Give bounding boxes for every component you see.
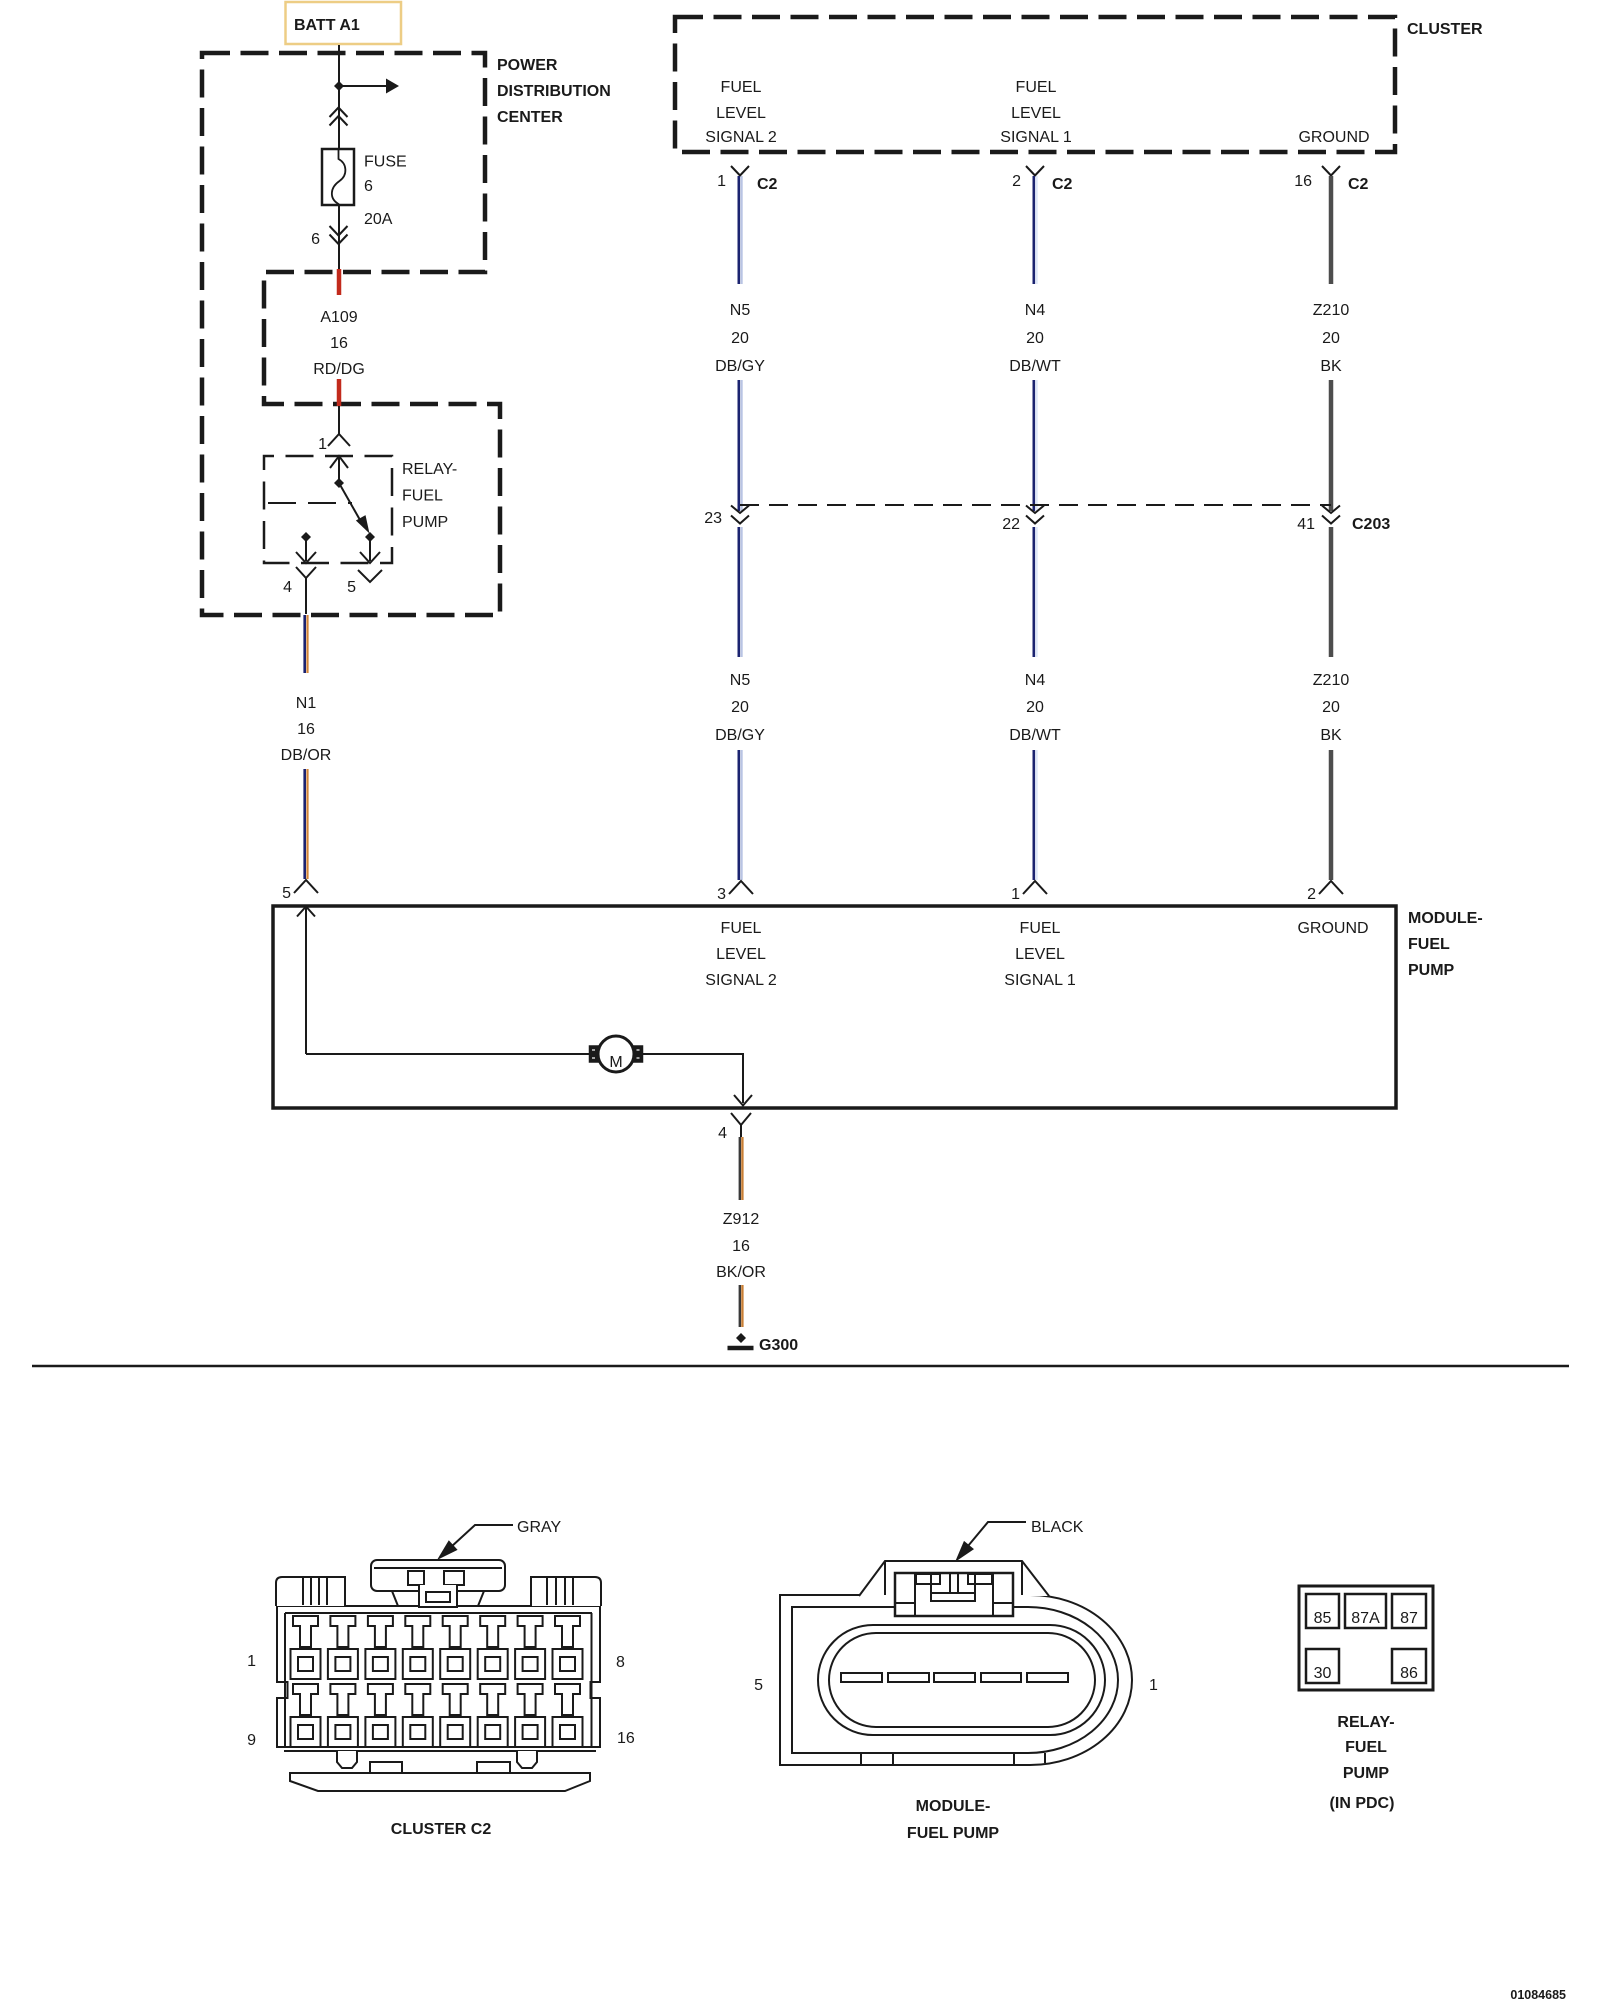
- svg-text:FUEL: FUEL: [1016, 79, 1057, 96]
- svg-text:85: 85: [1314, 1610, 1332, 1627]
- module pin 3 connector: [729, 881, 753, 894]
- pump slots: [841, 1673, 882, 1682]
- module internal wire from pin 5: [305, 907, 307, 1055]
- svg-text:BK: BK: [1320, 358, 1342, 375]
- svg-text:DISTRIBUTION: DISTRIBUTION: [497, 83, 611, 100]
- svg-text:Z210: Z210: [1313, 302, 1350, 319]
- battery feed BATT A1: [286, 2, 402, 44]
- label module fuel pump: [1408, 910, 1483, 979]
- fuse 6 20A: [322, 149, 407, 228]
- module pin 2 connector: [1319, 881, 1343, 894]
- separator line: [32, 1365, 1569, 1368]
- wire from battery: [338, 45, 340, 149]
- svg-text:01084685: 01084685: [1510, 1988, 1566, 2000]
- label relay fuel pump in pdc: [1330, 1714, 1395, 1812]
- C203 chevrons wire N4 pin 22: [1026, 506, 1044, 514]
- connector chevrons up: [330, 108, 348, 118]
- svg-text:LEVEL: LEVEL: [1015, 946, 1065, 963]
- wire N4 segment 1: [1033, 176, 1036, 284]
- connector drawing CLUSTER C2: [276, 1560, 601, 1791]
- cluster pin 1 C2: [731, 166, 749, 176]
- svg-text:5: 5: [347, 579, 356, 596]
- module pin 4 connector: [731, 1113, 751, 1125]
- svg-text:GRAY: GRAY: [517, 1519, 561, 1536]
- connector chevrons down pin 6: [330, 226, 348, 236]
- svg-text:DB/WT: DB/WT: [1009, 358, 1061, 375]
- module pin 5 connector: [294, 880, 318, 893]
- svg-text:GROUND: GROUND: [1297, 920, 1368, 937]
- svg-text:22: 22: [1002, 516, 1020, 533]
- svg-text:BK: BK: [1320, 727, 1342, 744]
- svg-text:16: 16: [330, 335, 348, 352]
- svg-text:20A: 20A: [364, 211, 393, 228]
- svg-text:(IN PDC): (IN PDC): [1330, 1795, 1395, 1812]
- wire label N4 20 DB/WT lower: [1009, 672, 1061, 744]
- module pin 1 connector: [1023, 881, 1047, 894]
- svg-text:CLUSTER: CLUSTER: [1407, 21, 1483, 38]
- wire N1 to PDC edge: [305, 590, 307, 614]
- svg-text:MODULE-: MODULE-: [916, 1798, 991, 1815]
- cluster pin 2 C2: [1026, 166, 1044, 176]
- wire A109 red mark 2: [337, 379, 342, 406]
- svg-text:PUMP: PUMP: [402, 514, 448, 531]
- svg-text:DB/WT: DB/WT: [1009, 727, 1061, 744]
- connector drawing RELAY (IN PDC): [1299, 1586, 1433, 1690]
- svg-text:SIGNAL 2: SIGNAL 2: [705, 129, 777, 146]
- svg-text:DB/GY: DB/GY: [715, 358, 765, 375]
- svg-text:CENTER: CENTER: [497, 109, 563, 126]
- svg-text:N4: N4: [1025, 672, 1046, 689]
- wire Z210 segment 1: [1329, 176, 1334, 284]
- svg-text:3: 3: [717, 886, 726, 903]
- svg-text:N1: N1: [296, 695, 317, 712]
- cluster pin 16 C2: [1322, 166, 1340, 176]
- svg-text:FUEL: FUEL: [402, 488, 443, 505]
- svg-text:Z912: Z912: [723, 1211, 760, 1228]
- svg-text:FUEL: FUEL: [1345, 1739, 1387, 1756]
- svg-text:16: 16: [297, 721, 315, 738]
- svg-text:1: 1: [1011, 886, 1020, 903]
- C2 left top tab: [276, 1577, 345, 1606]
- svg-text:87: 87: [1400, 1610, 1418, 1627]
- C2 gray tab: [371, 1560, 505, 1591]
- svg-text:FUEL PUMP: FUEL PUMP: [907, 1825, 999, 1842]
- svg-text:LEVEL: LEVEL: [716, 946, 766, 963]
- svg-text:20: 20: [1026, 699, 1044, 716]
- relay switch arm: [334, 478, 344, 488]
- pump bottom tabs: [860, 1753, 862, 1765]
- svg-text:FUSE: FUSE: [364, 154, 407, 171]
- svg-text:2: 2: [1012, 173, 1021, 190]
- C2 terminal grid row 2: [291, 1684, 321, 1747]
- connector C203 dashed line: [740, 504, 1331, 506]
- svg-text:2: 2: [1307, 886, 1316, 903]
- relay terminal 5 arrow down: [369, 537, 371, 561]
- wire N1 colored segment 2: [303, 769, 306, 879]
- svg-text:4: 4: [283, 579, 292, 596]
- svg-text:6: 6: [364, 178, 373, 195]
- svg-text:FUEL: FUEL: [1020, 920, 1061, 937]
- svg-text:16: 16: [617, 1730, 635, 1747]
- svg-text:C2: C2: [757, 176, 778, 193]
- svg-text:GROUND: GROUND: [1298, 129, 1369, 146]
- C2 bottom band: [284, 1750, 596, 1752]
- motor M: [590, 1036, 643, 1072]
- svg-text:23: 23: [704, 510, 722, 527]
- svg-text:86: 86: [1400, 1665, 1418, 1682]
- svg-text:5: 5: [282, 885, 291, 902]
- wire Z210 segment 3: [1329, 750, 1334, 880]
- pump black label arrow: [968, 1522, 1026, 1546]
- svg-text:RD/DG: RD/DG: [313, 361, 365, 378]
- wire to relay pin 1: [338, 406, 340, 434]
- power distribution center box: [202, 53, 500, 615]
- wire label N1 16 DB/OR: [281, 695, 332, 764]
- wire Z912 segment 1: [739, 1137, 741, 1200]
- wire N4 segment 3: [1033, 750, 1036, 880]
- svg-text:BATT A1: BATT A1: [294, 17, 360, 34]
- wire Z210 segment 2: [1329, 380, 1334, 511]
- svg-text:SIGNAL 1: SIGNAL 1: [1004, 972, 1076, 989]
- cluster pin labels: [705, 79, 777, 146]
- relay fuel pump box: [264, 456, 392, 563]
- relay pin 5 connector: [358, 570, 382, 582]
- pump inner stadium: [818, 1625, 1105, 1735]
- label power distribution center: [497, 57, 611, 126]
- relay pin 4 connector: [296, 567, 316, 578]
- svg-text:FUEL: FUEL: [721, 79, 762, 96]
- svg-text:RELAY-: RELAY-: [1337, 1714, 1394, 1731]
- svg-text:N5: N5: [730, 672, 751, 689]
- ground G300: [728, 1333, 799, 1354]
- wire label Z210 20 BK lower: [1313, 672, 1350, 744]
- svg-text:LEVEL: LEVEL: [1011, 105, 1061, 122]
- module pin labels: [705, 920, 777, 989]
- svg-text:20: 20: [1322, 330, 1340, 347]
- svg-text:CLUSTER C2: CLUSTER C2: [391, 1821, 492, 1838]
- svg-text:LEVEL: LEVEL: [716, 105, 766, 122]
- svg-text:16: 16: [1294, 173, 1312, 190]
- svg-text:9: 9: [247, 1732, 256, 1749]
- svg-text:MODULE-: MODULE-: [1408, 910, 1483, 927]
- wire to motor: [306, 1053, 590, 1055]
- svg-text:1: 1: [247, 1653, 256, 1670]
- svg-text:PUMP: PUMP: [1408, 962, 1455, 979]
- svg-text:20: 20: [731, 330, 749, 347]
- svg-text:FUEL: FUEL: [721, 920, 762, 937]
- wire N5 segment 2: [737, 380, 740, 511]
- pump body outer: [780, 1595, 1132, 1765]
- svg-text:POWER: POWER: [497, 57, 558, 74]
- svg-text:20: 20: [731, 699, 749, 716]
- svg-text:16: 16: [732, 1238, 750, 1255]
- svg-text:C203: C203: [1352, 516, 1390, 533]
- svg-text:1: 1: [717, 173, 726, 190]
- svg-text:1: 1: [318, 436, 327, 453]
- wire N1 colored segment 1: [303, 615, 306, 673]
- svg-text:SIGNAL 1: SIGNAL 1: [1000, 129, 1072, 146]
- relay terminal 1 arrow: [338, 456, 340, 481]
- wire label Z210 20 BK upper: [1313, 302, 1350, 375]
- svg-text:G300: G300: [759, 1337, 798, 1354]
- svg-text:4: 4: [718, 1125, 727, 1142]
- C2 right top tab: [531, 1577, 601, 1606]
- svg-text:N5: N5: [730, 302, 751, 319]
- wire label Z912 16 BK/OR: [716, 1211, 766, 1281]
- svg-text:30: 30: [1314, 1665, 1332, 1682]
- relay terminal 4 arrow down: [301, 532, 311, 542]
- svg-text:DB/GY: DB/GY: [715, 727, 765, 744]
- svg-text:20: 20: [1026, 330, 1044, 347]
- wire label A109 16 RD/DG: [313, 309, 365, 378]
- wire label N5 20 DB/GY lower: [715, 672, 765, 744]
- wire A109 red mark 1: [337, 269, 342, 295]
- wire label N5 20 DB/GY upper: [715, 302, 765, 375]
- C203 chevrons wire Z210 pin 41: [1322, 506, 1340, 514]
- svg-text:BLACK: BLACK: [1031, 1519, 1084, 1536]
- svg-text:Z210: Z210: [1313, 672, 1350, 689]
- svg-text:DB/OR: DB/OR: [281, 747, 332, 764]
- svg-text:C2: C2: [1052, 176, 1073, 193]
- C203 chevrons wire N5 pin 23: [731, 506, 749, 514]
- cluster box: [675, 17, 1395, 152]
- svg-text:FUEL: FUEL: [1408, 936, 1450, 953]
- wire below fuse: [338, 205, 340, 269]
- wire from motor to pin 4: [643, 1054, 744, 1103]
- svg-text:BK/OR: BK/OR: [716, 1264, 766, 1281]
- wire N5 segment 3: [737, 750, 740, 880]
- wire N5 segment 1: [737, 176, 740, 284]
- pump top tab: [859, 1561, 1049, 1596]
- svg-text:20: 20: [1322, 699, 1340, 716]
- svg-text:C2: C2: [1348, 176, 1369, 193]
- svg-text:A109: A109: [320, 309, 357, 326]
- svg-text:5: 5: [754, 1677, 763, 1694]
- relay pin 1 connector: [328, 434, 350, 446]
- wire label N4 20 DB/WT upper: [1009, 302, 1061, 375]
- wire feed arrow: [339, 85, 386, 87]
- relay coil dashed: [268, 502, 352, 504]
- C2 terminal grid row 1: [291, 1616, 321, 1679]
- wire Z912 segment 2: [739, 1285, 741, 1327]
- svg-text:6: 6: [311, 231, 320, 248]
- module fuel pump box: [273, 906, 1396, 1108]
- svg-text:SIGNAL 2: SIGNAL 2: [705, 972, 777, 989]
- label relay fuel pump: [402, 461, 457, 531]
- svg-text:1: 1: [1149, 1677, 1158, 1694]
- svg-text:87A: 87A: [1351, 1610, 1380, 1627]
- C2 body outline: [277, 1606, 600, 1747]
- svg-text:PUMP: PUMP: [1343, 1765, 1390, 1782]
- svg-text:M: M: [609, 1054, 622, 1071]
- C2 gray label arrow: [451, 1525, 513, 1547]
- svg-text:RELAY-: RELAY-: [402, 461, 457, 478]
- svg-text:41: 41: [1297, 516, 1315, 533]
- svg-text:N4: N4: [1025, 302, 1046, 319]
- svg-text:8: 8: [616, 1654, 625, 1671]
- connector drawing MODULE FUEL PUMP: [780, 1561, 1132, 1765]
- wire N4 segment 2: [1033, 380, 1036, 511]
- node junction: [334, 81, 344, 91]
